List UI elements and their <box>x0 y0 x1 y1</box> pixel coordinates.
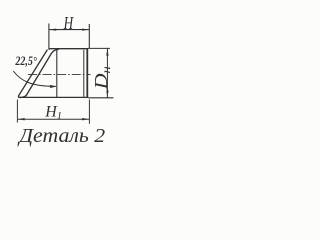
svg-text:Деталь 2: Деталь 2 <box>17 126 106 147</box>
wire: H1 left extension line <box>16 100 18 123</box>
wire: Dn dimension line <box>106 49 108 98</box>
node: oblique cut face band <box>18 49 58 97</box>
node: part bottom edge <box>18 96 88 98</box>
node: part right edge <box>86 48 88 97</box>
node: H1 arrow right <box>82 118 89 120</box>
wire: H left extension line <box>48 24 50 50</box>
wire: bottom extension line for Dn <box>88 97 113 99</box>
wire: angle dimension arc <box>13 71 56 86</box>
wire: H dimension line <box>49 29 89 31</box>
node: H1 arrow left <box>18 118 25 120</box>
node: Dn arrow down <box>106 90 108 97</box>
node: H dimension arrow left <box>49 28 56 30</box>
wire: H1 dimension line <box>18 118 89 120</box>
node: label Dn <box>91 66 113 90</box>
node: chamfer line <box>83 50 85 97</box>
svg-text:22,5°: 22,5° <box>15 54 37 68</box>
wire: top extension line for Dn <box>88 47 110 49</box>
wire: H right extension line <box>88 24 90 48</box>
wire: centre line (dash-dot axis) <box>28 73 91 75</box>
node: angle arrow <box>50 85 57 88</box>
wire: H1 right extension line <box>88 100 90 124</box>
node: H dimension arrow right <box>82 28 89 30</box>
node: part top edge <box>49 48 88 50</box>
node: Dn arrow up <box>106 49 108 56</box>
svg-text:H: H <box>63 13 74 33</box>
node: internal vertical edge of cut <box>56 49 58 98</box>
